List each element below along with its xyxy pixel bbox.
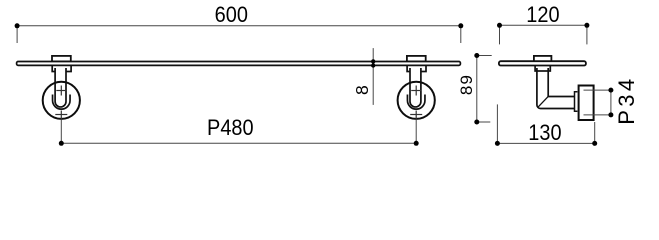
right bracket stem xyxy=(410,68,421,107)
arm end ring xyxy=(575,92,578,112)
left bracket bottom center mark xyxy=(55,111,67,120)
side collar xyxy=(535,64,550,71)
left bracket hub xyxy=(53,95,71,110)
dimension 600 end dots xyxy=(15,23,464,28)
dimension 130 end dots xyxy=(495,141,597,146)
dimension 89 xyxy=(477,56,492,123)
dimension 130 line xyxy=(497,104,594,143)
svg-text:8: 8 xyxy=(352,85,372,95)
svg-text:89: 89 xyxy=(457,74,476,95)
dimension 120 end dots xyxy=(497,23,589,28)
svg-text:P34: P34 xyxy=(614,75,639,124)
glass shelf front view xyxy=(17,62,461,66)
right bracket xyxy=(398,56,435,120)
left bracket xyxy=(43,56,80,120)
dimension P34 dots xyxy=(608,88,613,118)
side clamp xyxy=(534,56,552,62)
right bracket top center mark xyxy=(411,86,421,96)
left bracket stem xyxy=(55,68,66,107)
right bracket collar xyxy=(407,64,426,72)
svg-text:P480: P480 xyxy=(207,116,254,140)
left bracket collar xyxy=(52,64,71,72)
right bracket bottom center mark xyxy=(410,111,422,120)
side arm (stem + elbow + horizontal arm) xyxy=(537,68,575,109)
dimension P480 end dots xyxy=(59,141,419,146)
elbow fold line xyxy=(538,97,548,108)
wall flange plate xyxy=(579,86,594,121)
svg-text:130: 130 xyxy=(528,121,561,145)
dimension 8 (glass thickness) xyxy=(372,48,374,105)
dimension P480 line xyxy=(61,120,416,143)
dimension 89 dots xyxy=(474,53,479,125)
dimension P34 xyxy=(584,90,611,115)
right bracket hub xyxy=(407,95,425,110)
dimension 8 dots xyxy=(371,59,375,67)
side view shelf xyxy=(499,61,586,65)
right bracket clamp xyxy=(407,56,426,62)
left bracket flange circle xyxy=(43,82,80,119)
svg-text:600: 600 xyxy=(215,3,248,27)
svg-text:120: 120 xyxy=(526,3,559,27)
dimension 600 line xyxy=(17,26,461,43)
left bracket clamp xyxy=(52,56,71,62)
side view bracket xyxy=(534,56,594,120)
dimension 120 line xyxy=(500,25,587,44)
left bracket top center mark xyxy=(56,86,66,96)
right bracket flange circle xyxy=(398,82,435,119)
